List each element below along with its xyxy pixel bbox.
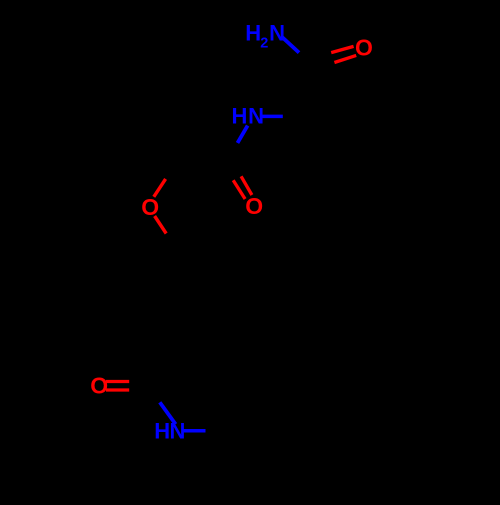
bond C=O double (bottom amide carbonyl), O half xyxy=(106,382,129,391)
bond C-N (bottom carbonyl C down-right to HN) xyxy=(160,402,176,424)
bond N-C (top amide N to carbonyl C) xyxy=(282,37,299,53)
bond N-C (middle HN to alpha carbon, horizontal) xyxy=(261,115,283,119)
svg-text:O: O xyxy=(245,193,263,219)
atom label H2N (amide NH2, top) xyxy=(245,20,285,51)
svg-text:H: H xyxy=(154,418,170,443)
bond O-C (ether O up-right to CH2) xyxy=(154,179,166,197)
svg-text:2: 2 xyxy=(260,35,268,51)
bond C=O double (middle carbonyl), O half xyxy=(233,176,252,199)
svg-text:N: N xyxy=(269,20,285,45)
bond N-C (middle HN down-left to carbonyl C) xyxy=(238,126,248,143)
svg-text:O: O xyxy=(90,372,108,398)
atom label HN (bottom amide N-H) xyxy=(154,418,185,443)
svg-text:H: H xyxy=(245,20,261,45)
atom label HN (secondary amide N-H, middle) xyxy=(232,104,264,129)
bond O-C (ether O down-right to ring) xyxy=(155,216,167,234)
svg-text:N: N xyxy=(170,418,186,443)
bond N-C (bottom HN to methyl, horizontal) xyxy=(183,429,205,433)
svg-text:H: H xyxy=(232,104,248,129)
svg-text:O: O xyxy=(355,35,373,61)
bond C=O double (top amide carbonyl), O half xyxy=(331,46,356,62)
